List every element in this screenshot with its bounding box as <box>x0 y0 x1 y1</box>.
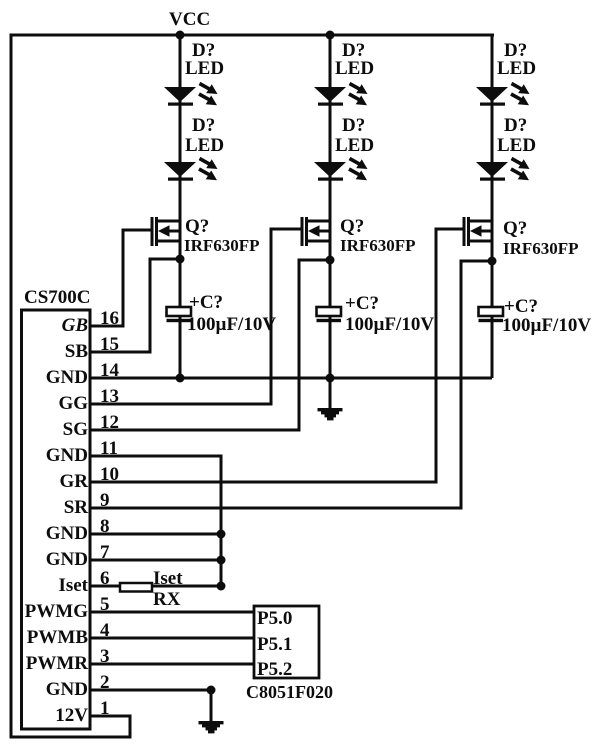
svg-text:Q?: Q? <box>503 218 527 239</box>
svg-text:Iset: Iset <box>153 568 183 589</box>
svg-text:GND: GND <box>46 549 88 570</box>
svg-text:+C?: +C? <box>504 296 538 317</box>
svg-text:VCC: VCC <box>169 9 210 30</box>
svg-text:GB: GB <box>62 315 88 336</box>
svg-text:GND: GND <box>46 679 88 700</box>
svg-text:P5.2: P5.2 <box>257 659 292 680</box>
svg-text:GG: GG <box>58 393 88 414</box>
svg-text:8: 8 <box>100 516 110 537</box>
svg-text:SR: SR <box>64 497 89 518</box>
svg-text:11: 11 <box>100 438 118 459</box>
svg-text:LED: LED <box>185 58 224 79</box>
svg-text:D?: D? <box>192 115 215 136</box>
svg-text:SG: SG <box>63 419 89 440</box>
svg-text:PWMB: PWMB <box>27 627 89 648</box>
svg-text:P5.1: P5.1 <box>257 634 292 655</box>
svg-text:LED: LED <box>335 58 374 79</box>
svg-text:C8051F020: C8051F020 <box>246 682 333 702</box>
svg-text:+C?: +C? <box>345 293 379 314</box>
svg-text:4: 4 <box>100 620 110 641</box>
svg-text:+C?: +C? <box>189 292 223 313</box>
svg-text:D?: D? <box>504 115 527 136</box>
svg-text:GR: GR <box>60 471 89 492</box>
svg-text:100µF/10V: 100µF/10V <box>187 314 276 335</box>
svg-text:12: 12 <box>100 412 119 433</box>
svg-text:LED: LED <box>185 135 224 156</box>
svg-text:IRF630FP: IRF630FP <box>184 236 260 255</box>
svg-text:Q?: Q? <box>185 216 209 237</box>
svg-text:IRF630FP: IRF630FP <box>340 236 416 255</box>
svg-text:PWMR: PWMR <box>26 653 89 674</box>
svg-text:14: 14 <box>100 360 120 381</box>
svg-text:13: 13 <box>100 386 119 407</box>
svg-text:SB: SB <box>65 341 89 362</box>
svg-text:7: 7 <box>100 542 110 563</box>
svg-text:LED: LED <box>497 58 536 79</box>
svg-text:CS700C: CS700C <box>24 287 91 308</box>
svg-text:Iset: Iset <box>58 575 88 596</box>
svg-text:D?: D? <box>342 115 365 136</box>
svg-text:IRF630FP: IRF630FP <box>503 239 579 258</box>
svg-text:GND: GND <box>46 523 88 544</box>
svg-text:RX: RX <box>153 589 181 610</box>
svg-text:100µF/10V: 100µF/10V <box>502 315 591 336</box>
svg-text:PWMG: PWMG <box>25 601 89 622</box>
svg-text:3: 3 <box>100 646 110 667</box>
svg-text:Q?: Q? <box>340 216 364 237</box>
svg-text:15: 15 <box>100 334 119 355</box>
svg-text:1: 1 <box>100 698 110 719</box>
svg-text:100µF/10V: 100µF/10V <box>345 314 434 335</box>
svg-text:5: 5 <box>100 594 110 615</box>
svg-text:GND: GND <box>46 367 88 388</box>
svg-text:LED: LED <box>497 135 536 156</box>
svg-text:10: 10 <box>100 464 119 485</box>
svg-text:6: 6 <box>100 568 110 589</box>
svg-text:LED: LED <box>335 135 374 156</box>
svg-text:12V: 12V <box>55 705 88 726</box>
svg-text:16: 16 <box>100 308 119 329</box>
svg-text:GND: GND <box>46 445 88 466</box>
svg-text:9: 9 <box>100 490 110 511</box>
svg-text:P5.0: P5.0 <box>257 608 292 629</box>
svg-text:2: 2 <box>100 672 110 693</box>
